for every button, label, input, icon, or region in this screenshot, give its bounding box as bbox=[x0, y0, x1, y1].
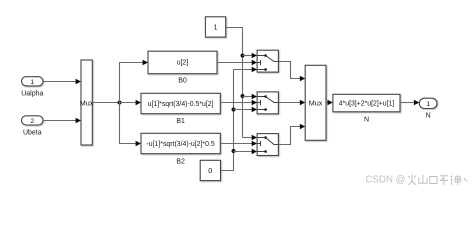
svg-text:N: N bbox=[364, 116, 369, 123]
svg-text:0: 0 bbox=[208, 166, 212, 175]
wire B0 to switch1 in2 bbox=[217, 60, 257, 65]
svg-text:1: 1 bbox=[30, 79, 34, 86]
svg-text:u[1]*sqrt(3/4)-0.5*u[2]: u[1]*sqrt(3/4)-0.5*u[2] bbox=[148, 101, 214, 108]
wire B2 to switch3 in2 bbox=[220, 141, 257, 146]
wire const0 bus to switch1 in3 bbox=[234, 67, 258, 72]
junction const1 bus to switch1 bbox=[241, 54, 245, 58]
svg-text:B1: B1 bbox=[176, 118, 185, 125]
watermark glyph comma bbox=[464, 178, 467, 181]
watermark glyph huo bbox=[408, 175, 416, 185]
mux Mux2 bbox=[305, 65, 326, 140]
watermark glyph kou bbox=[430, 177, 437, 184]
constant 1 bbox=[205, 17, 225, 37]
switch S1 bbox=[257, 50, 278, 72]
switch S2 bbox=[257, 92, 278, 114]
constant 0 bbox=[200, 160, 220, 180]
svg-text:B0: B0 bbox=[178, 78, 187, 85]
wire Mux1 output to junction bbox=[92, 102, 119, 104]
wire junction up to B0 bbox=[120, 60, 149, 103]
watermark glyph shen bbox=[450, 175, 460, 185]
wire Mux2 to fcn N bbox=[326, 100, 333, 105]
svg-text:Mux: Mux bbox=[309, 98, 323, 107]
wire switch2 to Mux2 in2 bbox=[278, 100, 305, 105]
svg-text:CSDN @: CSDN @ bbox=[366, 175, 406, 186]
wire Ualpha to Mux1 bbox=[43, 79, 81, 84]
wire switch3 to Mux2 in3 bbox=[278, 124, 305, 145]
svg-text:Ualpha: Ualpha bbox=[21, 91, 43, 98]
svg-text:N: N bbox=[426, 112, 431, 119]
wire junction to B1 bbox=[120, 100, 142, 105]
wire fcn N to outport bbox=[400, 100, 419, 105]
junction const0 bus to switch2 bbox=[232, 108, 236, 112]
svg-text:1: 1 bbox=[426, 101, 430, 108]
wire const1 bus to switch1 in1 bbox=[243, 53, 258, 58]
svg-text:Ubeta: Ubeta bbox=[23, 130, 42, 137]
svg-text:1: 1 bbox=[214, 23, 218, 32]
wire const0 bus to switch3 in3 bbox=[234, 149, 258, 154]
wire junction down to B2 bbox=[120, 103, 142, 147]
mux Mux1 bbox=[80, 60, 94, 145]
fcn B0 u[2] bbox=[148, 51, 217, 73]
junction on Mux1 output bbox=[118, 101, 122, 105]
svg-text:2: 2 bbox=[30, 118, 34, 125]
watermark glyph che bbox=[440, 176, 448, 185]
fcn B1 u[1]*sqrt(3/4)-0.5*u[2] bbox=[141, 93, 220, 113]
junction const0 bus to switch3 bbox=[232, 149, 236, 153]
inport 2 Ubeta bbox=[22, 116, 44, 125]
wire const0 bus to switch2 in3 bbox=[234, 107, 258, 112]
switch S3 bbox=[257, 134, 278, 156]
outport 1 N bbox=[419, 98, 437, 108]
wire const1 bus to switch2 in1 bbox=[243, 94, 258, 99]
inport 1 Ualpha bbox=[22, 77, 44, 86]
svg-text:-u[1]*sqrt(3/4)-u[2]*0.5: -u[1]*sqrt(3/4)-u[2]*0.5 bbox=[147, 141, 215, 148]
wire constant0 bus bbox=[221, 70, 234, 171]
wire switch1 to Mux2 in1 bbox=[278, 62, 305, 82]
wire Ubeta to Mux1 bbox=[43, 118, 81, 123]
wire constant1 bus bbox=[226, 28, 243, 138]
svg-text:B2: B2 bbox=[176, 158, 185, 165]
wire const1 bus to switch3 in1 bbox=[243, 135, 258, 140]
fcn N 4*u[3]+2*u[2]+u[1] bbox=[333, 94, 400, 112]
svg-text:u[2]: u[2] bbox=[177, 60, 189, 67]
svg-text:4*u[3]+2*u[2]+u[1]: 4*u[3]+2*u[2]+u[1] bbox=[339, 100, 395, 107]
svg-text:Mux: Mux bbox=[80, 98, 94, 107]
watermark CSDN bbox=[366, 175, 468, 186]
wire B1 to switch2 in2 bbox=[220, 100, 257, 105]
junction const1 bus to switch2 bbox=[241, 94, 245, 98]
fcn B2 -u[1]*sqrt(3/4)-u[2]*0.5 bbox=[141, 133, 220, 153]
watermark glyph shan bbox=[419, 175, 427, 183]
